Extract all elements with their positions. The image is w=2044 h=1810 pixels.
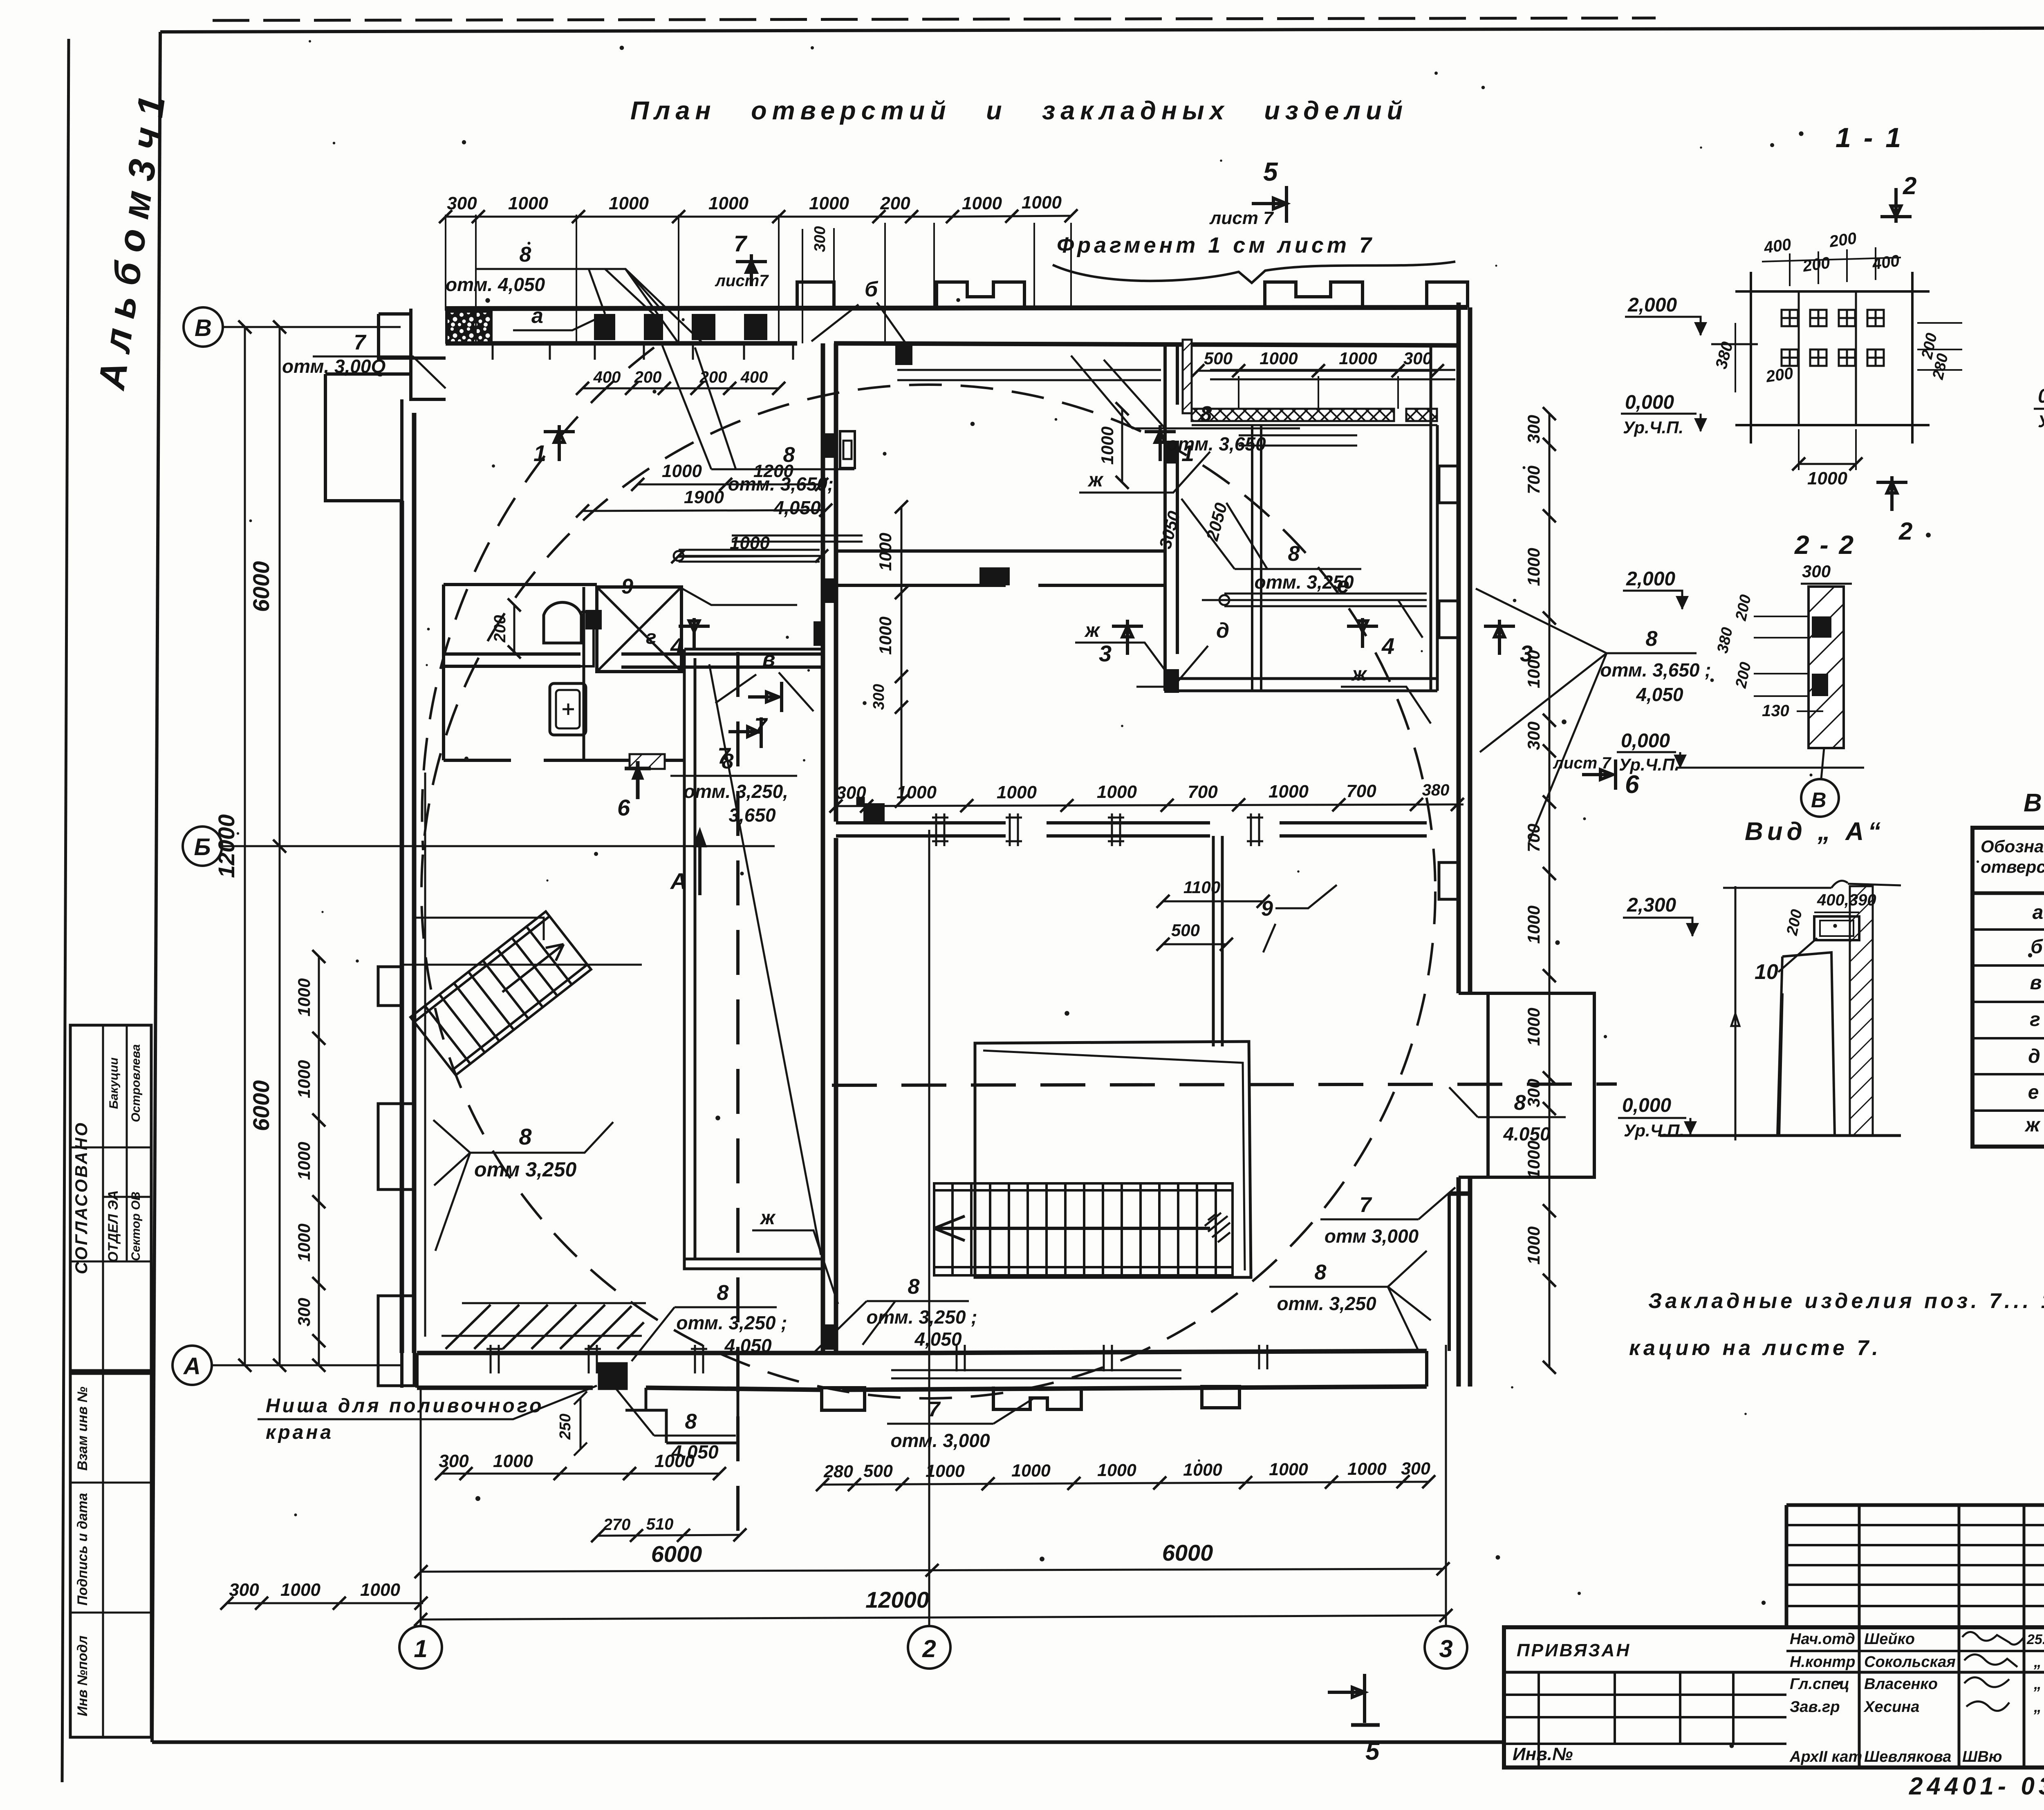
rotated staircase upper left <box>410 912 591 1075</box>
svg-text:200: 200 <box>1801 254 1831 276</box>
left wall pilaster 1 <box>378 967 403 1006</box>
svg-text:Бакуции: Бакуции <box>107 1057 121 1109</box>
svg-text:700: 700 <box>1188 782 1218 802</box>
svg-text:1000: 1000 <box>1524 1226 1543 1264</box>
top wall piers above 4 <box>1427 282 1468 307</box>
svg-text:АрхII кат: АрхII кат <box>1789 1748 1862 1765</box>
svg-text:250: 250 <box>557 1414 574 1440</box>
svg-text:В: В <box>1811 789 1827 812</box>
leader v corridor <box>715 647 814 711</box>
section mark 3 right <box>1484 620 1533 666</box>
section 1-1 elevation 2.000 <box>1625 294 1758 344</box>
view A left vertical <box>1731 886 1739 1140</box>
grid circle 2 <box>908 1626 950 1669</box>
section mark 4 right <box>1347 618 1394 659</box>
svg-text:в: в <box>2030 972 2042 994</box>
svg-text:1000: 1000 <box>280 1580 320 1600</box>
svg-text:10: 10 <box>1755 960 1778 984</box>
stamp box inv <box>70 1373 151 1737</box>
staircase treads bottom <box>934 1183 1233 1275</box>
svg-text:Островлева: Островлева <box>129 1044 143 1122</box>
grid line 1 vertical <box>420 1390 422 1626</box>
svg-text:1000: 1000 <box>1011 1461 1051 1481</box>
upper right room inner partition <box>1252 425 1261 691</box>
svg-text:400: 400 <box>740 368 768 386</box>
table grid <box>1972 828 2044 1147</box>
svg-text:„: „ <box>2033 1676 2042 1693</box>
view A ground line <box>1660 1134 1901 1137</box>
view A wall hatched <box>1850 886 1873 1136</box>
leader zh 4 <box>752 1207 838 1304</box>
washbasin <box>550 683 586 735</box>
svg-text:1000: 1000 <box>708 193 749 213</box>
grid circle A <box>173 1346 212 1385</box>
bottom wall pier 2 <box>993 1387 1081 1409</box>
svg-text:Сектор ОВ: Сектор ОВ <box>129 1192 143 1261</box>
grid circle 1 <box>399 1626 442 1669</box>
grid circle Б <box>183 827 222 866</box>
dashed big circle <box>421 385 1435 1398</box>
svg-text:Ур.Ч.П.: Ур.Ч.П. <box>1623 418 1683 437</box>
svg-text:1000: 1000 <box>1524 905 1543 943</box>
mottled opening a in top wall <box>446 311 491 343</box>
niche polivochnogo krana black square <box>600 1364 625 1388</box>
sheet border top line <box>160 27 2044 32</box>
svg-text:4,050: 4,050 <box>914 1328 962 1350</box>
upper right room left wall <box>1165 345 1177 691</box>
table data rows <box>2024 898 2044 1137</box>
stamp box soglasovano <box>70 1025 151 1371</box>
svg-text:отм. 3,000: отм. 3,000 <box>890 1430 990 1451</box>
left wall inner line toilets <box>442 585 445 760</box>
svg-text:9: 9 <box>1261 897 1273 921</box>
svg-text:300: 300 <box>1524 721 1543 750</box>
black squares top wall <box>594 314 615 340</box>
section mark 1 left <box>533 425 575 466</box>
grid line B horizontal <box>223 326 401 328</box>
svg-text:1000: 1000 <box>508 193 548 213</box>
black square interior wall bottom <box>821 1324 836 1350</box>
svg-text:2: 2 <box>1903 172 1916 199</box>
dim 1900 chain line <box>583 510 826 511</box>
extension lines top chain <box>446 215 1071 343</box>
svg-text:1000: 1000 <box>1524 1008 1543 1046</box>
svg-text:4: 4 <box>1381 633 1394 659</box>
svg-text:Ур.Ч.П.: Ур.Ч.П. <box>1619 755 1679 774</box>
leader 8 4050 bot <box>615 1388 736 1463</box>
svg-text:4,050: 4,050 <box>773 497 821 518</box>
svg-text:г: г <box>646 627 657 648</box>
TITLEBLOCK <box>1504 1505 2044 1800</box>
leader b top <box>811 278 912 352</box>
titleblock left subtable <box>1504 1695 1786 1744</box>
section mark 4 left <box>670 618 710 659</box>
toilet partition vertical <box>584 587 597 760</box>
svg-text:200: 200 <box>491 615 509 643</box>
svg-text:0,000: 0,000 <box>1622 1095 1671 1116</box>
section 1-1 elevation 0.000 <box>1621 392 1707 437</box>
leader 8 otm 3250 left big <box>433 1120 613 1251</box>
svg-text:3: 3 <box>1520 641 1533 666</box>
svg-text:1000: 1000 <box>876 533 895 571</box>
svg-text:д: д <box>1216 619 1229 643</box>
svg-text:Шейко: Шейко <box>1864 1631 1915 1648</box>
rails pos9 top middle <box>679 550 820 562</box>
fragment label <box>1053 233 1455 283</box>
corridor wall black square <box>979 567 1010 585</box>
horizontal wall mid right y2030 <box>836 823 1427 836</box>
svg-text:в: в <box>762 647 775 671</box>
left wall pilaster 3 <box>378 1296 414 1386</box>
top-left corner piece <box>379 309 446 399</box>
svg-text:отм. 3,650 ;: отм. 3,650 ; <box>1600 659 1711 681</box>
svg-text:300: 300 <box>1524 415 1543 444</box>
svg-text:1000: 1000 <box>1807 468 1847 488</box>
grid circle B <box>184 307 223 347</box>
svg-text:План отверстий и закладн: План отверстий и закладных изделий <box>630 96 1408 125</box>
svg-text:лист 7: лист 7 <box>1553 754 1611 772</box>
svg-text:отм. 3,250: отм. 3,250 <box>1277 1293 1376 1314</box>
upper right room crosshatch strip <box>1192 409 1394 421</box>
svg-text:1000: 1000 <box>876 616 895 654</box>
svg-text:1000: 1000 <box>294 978 314 1016</box>
svg-text:кацию на листе 7.: кацию на листе 7. <box>1629 1336 1881 1360</box>
svg-text:7: 7 <box>734 231 748 256</box>
right wall pilaster 1 <box>1439 466 1459 503</box>
leader 9 room <box>1261 885 1337 952</box>
dashed vertical section line <box>736 652 740 1535</box>
svg-text:7: 7 <box>1360 1193 1372 1217</box>
svg-text:Вид „ А“: Вид „ А“ <box>1745 818 1885 846</box>
bottom wall pier 3 <box>1202 1387 1239 1408</box>
upper right room right wall <box>1431 345 1437 691</box>
svg-text:8: 8 <box>520 243 531 267</box>
svg-text:8: 8 <box>717 1281 729 1305</box>
leader 7 otm3000 right <box>1320 1187 1455 1247</box>
svg-text:3: 3 <box>1439 1635 1452 1662</box>
svg-text:6: 6 <box>1625 771 1639 799</box>
section 2-2 axis circle B <box>1801 748 1839 817</box>
svg-text:500: 500 <box>1171 921 1200 940</box>
grid circle 3 <box>1425 1626 1467 1669</box>
niche label bottom left <box>258 1386 597 1443</box>
stair landing lines upper left <box>414 918 544 940</box>
table header texts <box>1981 837 2044 878</box>
STAMPS <box>70 1025 151 1737</box>
svg-text:270: 270 <box>603 1516 631 1534</box>
svg-text:отверстий: отверстий <box>1981 857 2044 876</box>
view A door leaf <box>1777 952 1835 1136</box>
left wall chain chain line <box>318 957 320 1365</box>
svg-text:Власенко: Власенко <box>1864 1676 1938 1693</box>
svg-text:380: 380 <box>1422 781 1450 799</box>
svg-text:отм 3,000: отм 3,000 <box>1325 1225 1419 1247</box>
staircase room bottom outline <box>975 1042 1251 1277</box>
svg-text:300: 300 <box>294 1298 314 1326</box>
svg-text:4,050: 4,050 <box>1636 684 1683 705</box>
leader e <box>1202 572 1423 638</box>
top wall piers above 1 <box>797 282 834 309</box>
bottom right corner pier <box>1427 1194 1449 1387</box>
sheet border left inner line <box>152 32 160 1742</box>
svg-text:2,000: 2,000 <box>1626 568 1675 590</box>
black square top mid wall <box>858 799 863 803</box>
svg-text:400: 400 <box>1762 235 1792 257</box>
svg-text:1: 1 <box>533 440 546 466</box>
section 3-3 elevation 0.000 <box>2034 385 2044 431</box>
bottom wall left corner piece <box>402 1353 417 1388</box>
shaft black square <box>585 610 602 629</box>
svg-text:1000: 1000 <box>1269 782 1309 802</box>
bot chain r chain line <box>823 1482 1429 1485</box>
bot chain l1 chain line <box>442 1473 630 1475</box>
svg-text:отм 3,250: отм 3,250 <box>474 1158 577 1181</box>
dashed arc top left <box>422 347 654 850</box>
svg-text:1 - 1: 1 - 1 <box>1836 122 1903 153</box>
toilet room top wall <box>444 583 597 586</box>
section 2-2 elevation 0.000 <box>1617 730 1864 774</box>
svg-text:Взам инв №: Взам инв № <box>75 1387 90 1471</box>
svg-text:130: 130 <box>1762 702 1789 720</box>
section 1-1 inner verticals <box>1799 291 1856 425</box>
svg-text:Сокольская: Сокольская <box>1864 1653 1956 1671</box>
upper right room hatched pier <box>1183 340 1192 413</box>
SECTIONS <box>1617 122 2044 817</box>
section mark 7 top <box>715 231 769 290</box>
svg-text:1000: 1000 <box>1269 1460 1308 1479</box>
TABLE <box>1972 786 2044 1147</box>
svg-text:„: „ <box>2033 1653 2042 1671</box>
svg-text:300: 300 <box>811 226 829 252</box>
svg-text:6000: 6000 <box>248 1080 274 1131</box>
svg-text:отм. 3,250: отм. 3,250 <box>1254 571 1354 593</box>
section mark 5 top <box>1209 157 1286 228</box>
svg-text:8: 8 <box>1315 1261 1327 1284</box>
top wall inner line <box>446 343 1459 345</box>
svg-text:0,000: 0,000 <box>1625 392 1674 413</box>
svg-text:300: 300 <box>229 1580 259 1600</box>
svg-text:200: 200 <box>1764 364 1794 386</box>
svg-text:24401- 03 9: 24401- 03 9 <box>1909 1772 2044 1800</box>
svg-text:200: 200 <box>634 368 662 386</box>
black square mid wall <box>863 803 885 822</box>
svg-text:г: г <box>2030 1009 2040 1030</box>
svg-text:а: а <box>2033 902 2044 923</box>
leader 8 otm 3250 botright <box>1269 1251 1431 1351</box>
left wall pilaster 2 <box>378 1104 414 1189</box>
bottom wall pier 1 <box>822 1388 865 1410</box>
svg-text:1000: 1000 <box>1097 782 1137 802</box>
svg-text:9: 9 <box>621 575 633 598</box>
svg-text:ШВю: ШВю <box>1962 1748 2002 1765</box>
svg-text:1000: 1000 <box>1347 1459 1387 1479</box>
svg-text:лист7: лист7 <box>715 272 769 290</box>
svg-text:А: А <box>670 868 687 894</box>
svg-text:1000: 1000 <box>1524 548 1543 586</box>
svg-text:В: В <box>195 315 212 341</box>
svg-text:д: д <box>2028 1046 2040 1067</box>
titleblock privyazan cell <box>1504 1671 2044 1674</box>
note text <box>1629 1289 2044 1360</box>
svg-text:300: 300 <box>1802 562 1831 581</box>
svg-text:Фрагмент 1 см лист 7: Фрагмент 1 см лист 7 <box>1057 233 1375 258</box>
svg-text:2,000: 2,000 <box>1627 294 1677 316</box>
svg-text:300: 300 <box>447 193 477 213</box>
left wall outer line <box>402 413 414 1353</box>
svg-text:1000: 1000 <box>809 193 849 213</box>
svg-text:крана: крана <box>266 1422 334 1443</box>
section 1-1 embed squares row1 <box>1782 310 1884 366</box>
svg-text:4,050: 4,050 <box>724 1335 772 1356</box>
section mark A arrow <box>670 832 705 895</box>
room top dims chain line <box>1198 370 1437 372</box>
svg-text:1000: 1000 <box>1022 193 1062 213</box>
svg-text:12000: 12000 <box>213 814 239 878</box>
svg-text:8: 8 <box>783 443 795 467</box>
svg-text:Ур.Ч.П.: Ур.Ч.П. <box>1624 1121 1684 1140</box>
svg-text:Хесина: Хесина <box>1863 1698 1919 1716</box>
svg-text:ж: ж <box>1084 620 1100 641</box>
svg-text:Инв.№: Инв.№ <box>1513 1744 1573 1764</box>
view A elevation 0.000 <box>1618 1095 1697 1140</box>
leader 8 otm 3250 room <box>1181 499 1361 593</box>
svg-text:1000: 1000 <box>1524 1140 1543 1178</box>
svg-text:1000: 1000 <box>962 193 1002 213</box>
section 2-2 wall hatched <box>1809 587 1844 748</box>
svg-text:Закладные изделия поз.: Закладные изделия поз. 7... 10 см. специ… <box>1648 1289 2044 1313</box>
toilet bowl <box>544 603 581 643</box>
svg-text:700: 700 <box>1524 466 1543 494</box>
section 1-1 mark 2 top <box>1880 172 1916 223</box>
svg-text:6: 6 <box>617 795 630 820</box>
left niche for opening a <box>325 374 411 501</box>
grid line 3 vertical <box>1445 1345 1447 1626</box>
grid line Б horizontal <box>222 845 775 847</box>
svg-text:6000: 6000 <box>1162 1540 1213 1566</box>
svg-text:510: 510 <box>646 1515 674 1533</box>
dim 200 left chain line <box>513 605 515 652</box>
svg-text:1000: 1000 <box>730 533 770 553</box>
section 1-1 dim 1000 <box>1792 429 1862 488</box>
view A axis circle B <box>1819 784 1821 786</box>
svg-text:1000: 1000 <box>294 1142 314 1180</box>
chain 6000 chain line <box>421 1569 1443 1572</box>
svg-text:400,390: 400,390 <box>1817 891 1876 909</box>
section mark 6 right <box>1553 754 1639 799</box>
svg-text:Ур.Ч.П.: Ур.Ч.П. <box>2038 412 2044 431</box>
svg-text:8: 8 <box>1200 402 1212 426</box>
vertical chain x2205 <box>870 500 908 808</box>
leader 8 otm 3650 top mid <box>1071 356 1300 455</box>
svg-text:4.050: 4.050 <box>1503 1123 1551 1145</box>
svg-text:Инв №подл: Инв №подл <box>75 1635 90 1716</box>
diagonal hatch bottom left corner <box>446 1305 644 1349</box>
LEADERS <box>258 157 1711 1765</box>
small niche rect in corridor top <box>840 431 855 468</box>
room extension verticals <box>1239 376 1398 409</box>
section mark 5 bottom <box>1328 1674 1380 1765</box>
svg-text:ж: ж <box>1087 469 1104 491</box>
svg-text:6000: 6000 <box>248 561 274 612</box>
pier ticks bottom wall <box>486 1345 1267 1373</box>
svg-text:б: б <box>2031 936 2043 958</box>
leader 8 otm 4.050 topleft <box>446 243 703 343</box>
chain 12000 chain line <box>421 1615 1446 1620</box>
svg-text:200: 200 <box>880 193 910 213</box>
svg-text:4,050: 4,050 <box>671 1441 719 1463</box>
titleblock outer <box>1504 1627 2044 1767</box>
VIEWA <box>1618 818 1901 1140</box>
svg-text:Нач.отд: Нач.отд <box>1790 1631 1855 1648</box>
svg-text:ж: ж <box>2024 1114 2041 1136</box>
svg-text:8: 8 <box>685 1410 697 1434</box>
rails pos9 in upper right room <box>1224 594 1427 606</box>
leader 9 top <box>621 575 797 605</box>
grid line A horizontal <box>212 1364 401 1366</box>
right wall pilaster 2 <box>1439 601 1459 638</box>
svg-text:„: „ <box>2033 1698 2042 1716</box>
view A elevation 2.300 <box>1623 894 1699 937</box>
crossed shaft square <box>597 587 681 672</box>
svg-text:отм. 3,250 ;: отм. 3,250 ; <box>676 1312 787 1333</box>
interior horizontal wall upper rooms <box>444 654 823 667</box>
top dim row3 chain line <box>638 484 822 486</box>
botleft chain chain line <box>227 1602 423 1604</box>
svg-text:отм. 3,250,: отм. 3,250, <box>684 781 788 802</box>
svg-text:1000: 1000 <box>662 461 702 481</box>
svg-text:7: 7 <box>717 743 731 768</box>
right dim chain chain line <box>1549 414 1551 1367</box>
titleblock middle rows <box>1786 1650 2044 1652</box>
svg-text:1000: 1000 <box>1097 1461 1136 1480</box>
svg-text:отм. 3,00Q: отм. 3,00Q <box>282 356 386 377</box>
leader 8 otm 3650 4050 right <box>1476 589 1711 842</box>
left wall inner leaf lines <box>424 773 426 1337</box>
grid line 2 vertical <box>928 830 930 1626</box>
svg-text:Б: Б <box>194 834 211 860</box>
svg-text:400: 400 <box>593 368 621 386</box>
svg-text:отм. 4,050: отм. 4,050 <box>446 274 545 295</box>
view A top line <box>1723 884 1901 888</box>
svg-text:Шевлякова: Шевлякова <box>1864 1748 1951 1765</box>
svg-text:500: 500 <box>863 1461 893 1481</box>
hatched small rect in corridor <box>630 754 665 769</box>
svg-text:7: 7 <box>354 331 367 354</box>
svg-text:7: 7 <box>928 1398 941 1421</box>
svg-text:1000: 1000 <box>1098 426 1117 464</box>
titleblock upper grid <box>1786 1505 2044 1627</box>
svg-text:Ведомость: Ведомость <box>2024 789 2044 817</box>
upper right room bottom wall <box>1165 679 1437 691</box>
bottom wall band <box>417 1351 1427 1390</box>
section 2-2 black embeds <box>1812 616 1831 638</box>
svg-text:Н.контр: Н.контр <box>1790 1653 1855 1671</box>
svg-text:Подпись и дата: Подпись и дата <box>75 1493 90 1606</box>
svg-text:0,000: 0,000 <box>2038 385 2044 407</box>
titleblock signatures <box>1962 1632 2024 1711</box>
lower partition under toilets <box>444 759 684 762</box>
top wall piers above 3 <box>1265 282 1363 309</box>
leader d <box>1136 619 1229 687</box>
leader 8 otm3250 4050 botmid2 <box>814 1275 977 1353</box>
svg-text:5: 5 <box>1263 157 1278 186</box>
dashed horizontal centerline <box>832 1084 1617 1085</box>
svg-text:3,650: 3,650 <box>728 804 776 826</box>
view A leader 10 <box>1755 938 1817 984</box>
partition below mid wall <box>1213 836 1222 1046</box>
svg-text:1100: 1100 <box>1183 878 1220 897</box>
top dim row2 chain line <box>583 388 779 390</box>
